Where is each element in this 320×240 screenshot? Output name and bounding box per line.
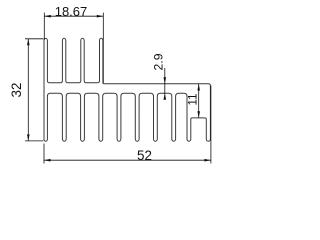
heatsink profile technical drawing [0, 0, 239, 170]
svg-text:52: 52 [137, 148, 152, 163]
extension line left of 18.67 [43, 13, 45, 40]
extension line right of 52 [210, 86, 212, 164]
arrowhead left 52 [44, 159, 51, 162]
arrowhead top 32 [27, 39, 30, 46]
dimension line 11 [198, 84, 200, 118]
dimension 11 block thickness [187, 84, 200, 118]
arrowhead right 18.67 [97, 15, 104, 18]
extension line bottom of 32 [25, 140, 44, 142]
svg-text:11: 11 [187, 94, 199, 106]
arrowhead up to base bottom 2.9 [164, 93, 167, 100]
svg-text:18.67: 18.67 [55, 4, 88, 19]
dimension line 2.9 [164, 68, 166, 100]
dimension line 32 [27, 39, 29, 141]
arrowhead up 11 [197, 84, 200, 91]
extension line top of 32 [25, 38, 44, 40]
arrowhead left 18.67 [44, 15, 51, 18]
svg-text:32: 32 [9, 83, 24, 98]
dimension 32 overall height [9, 39, 44, 141]
heatsink extrusion profile outline [44, 38, 210, 141]
svg-text:2.9: 2.9 [152, 53, 166, 70]
extension line left of 52 [43, 144, 45, 164]
arrowhead bottom 32 [27, 134, 30, 141]
extension line right of 18.67 [102, 13, 104, 83]
dimension line 18.67 [44, 15, 103, 17]
arrowhead right 52 [204, 159, 211, 162]
dimension 18.67 top width [44, 4, 103, 83]
dimension 2.9 base thickness [152, 53, 167, 99]
arrowhead down to base top 2.9 [164, 77, 167, 84]
arrowhead down 11 [197, 111, 200, 118]
dimension 52 overall width [44, 86, 211, 164]
dimension line 52 [44, 159, 211, 161]
